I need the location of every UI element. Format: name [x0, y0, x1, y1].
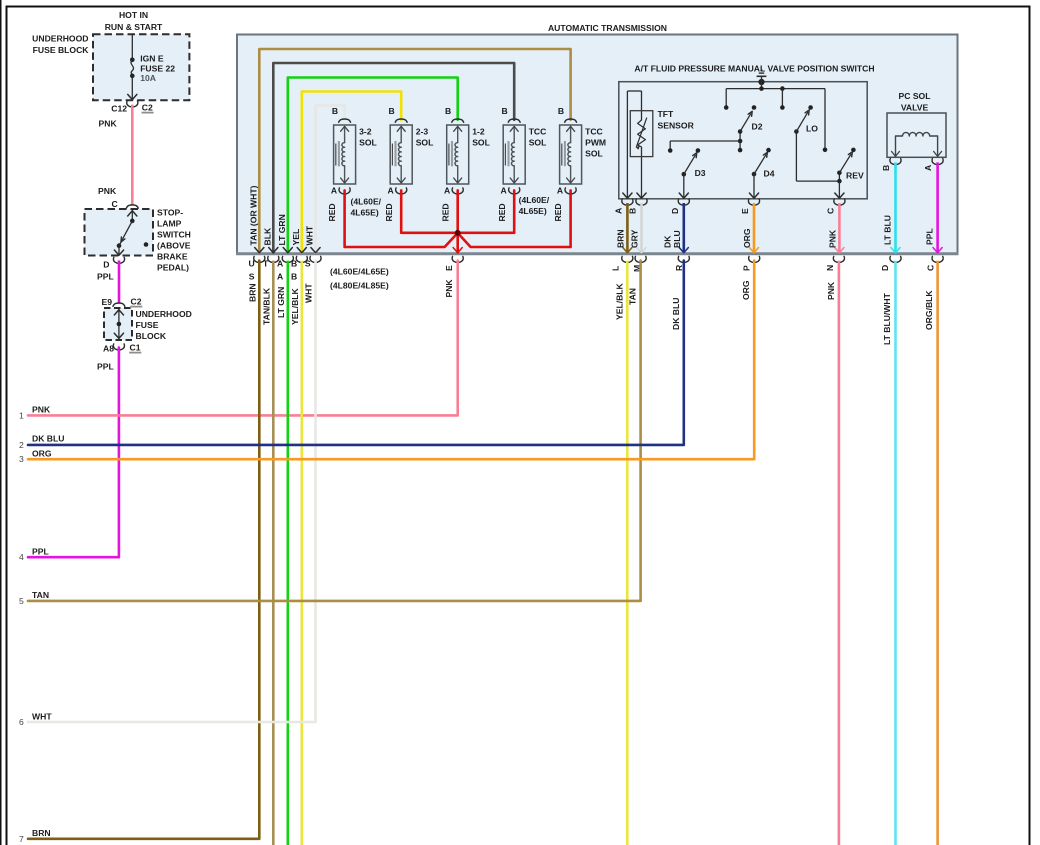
svg-text:A/T FLUID PRESSURE MANUAL VALV: A/T FLUID PRESSURE MANUAL VALVE POSITION…: [634, 64, 874, 74]
svg-text:D: D: [103, 260, 109, 270]
wire PPL pin A of PC SOL valve: [923, 159, 943, 253]
label 4L60E/4L65E at 3-2 SOL: [351, 197, 382, 218]
svg-text:PNK: PNK: [826, 281, 836, 300]
svg-text:LT BLU: LT BLU: [882, 215, 892, 245]
wire RED from TCC SOL A: [459, 190, 514, 232]
svg-text:VALVE: VALVE: [901, 103, 929, 113]
wire TAN circuit 5 (pin M to row 5): [19, 261, 641, 606]
connector pin C of stop lamp switch: [126, 205, 138, 208]
svg-text:YEL: YEL: [291, 229, 301, 246]
svg-text:ORG: ORG: [742, 228, 752, 248]
wire LT BLU/WHT pin D: [882, 261, 896, 845]
svg-text:ORG: ORG: [741, 280, 751, 300]
svg-text:B: B: [881, 165, 891, 171]
connector pin D of stop lamp switch: [103, 257, 124, 269]
wire WHT circuit 6 (to row 6): [19, 261, 316, 727]
svg-text:RED: RED: [553, 203, 563, 221]
svg-text:1-2: 1-2: [472, 127, 485, 137]
svg-text:FUSE BLOCK: FUSE BLOCK: [33, 45, 90, 55]
svg-text:UNDERHOOD: UNDERHOOD: [32, 34, 88, 44]
wire PNK from C12 to stop lamp switch: [98, 105, 132, 209]
switch REV: [835, 148, 864, 199]
wire ORG pin E of position switch: [740, 199, 760, 253]
svg-text:AUTOMATIC TRANSMISSION: AUTOMATIC TRANSMISSION: [548, 23, 667, 33]
connector pins T (TAN/BLK): [263, 256, 279, 268]
svg-text:DK BLU: DK BLU: [671, 298, 681, 330]
solenoid 1-2 SOL: [444, 106, 490, 196]
svg-text:YEL/BLK: YEL/BLK: [614, 282, 624, 320]
switch LO: [794, 105, 839, 181]
svg-text:LO: LO: [806, 124, 818, 134]
svg-text:SOL: SOL: [359, 138, 377, 148]
svg-text:RED: RED: [440, 203, 450, 221]
wire PPL from D to E9: [97, 260, 119, 303]
wire DK BLU pin D of position switch: [662, 199, 689, 253]
svg-text:A: A: [500, 186, 506, 196]
svg-text:A: A: [331, 186, 337, 196]
svg-text:IGN E: IGN E: [140, 54, 164, 64]
svg-text:BRN: BRN: [32, 828, 51, 838]
svg-text:C2: C2: [142, 103, 153, 113]
svg-text:TCC: TCC: [529, 127, 547, 137]
wire DK BLU circuit 2 (pin R to row 2): [19, 261, 684, 450]
connector pins S (WHT): [305, 256, 321, 268]
wire BLK to solenoid: [262, 63, 514, 253]
svg-text:LT GRN: LT GRN: [277, 214, 287, 245]
connector pins B/B (YEL/BLK): [291, 256, 307, 281]
svg-text:A: A: [923, 165, 933, 171]
solenoid 3-2 SOL: [331, 106, 377, 196]
underhood fuse block pass-through: [104, 308, 192, 341]
wire LT GRN: [276, 261, 288, 845]
svg-text:C: C: [112, 199, 118, 209]
svg-text:PPL: PPL: [32, 547, 49, 557]
svg-text:UNDERHOOD: UNDERHOOD: [136, 309, 192, 319]
wire PPL circuit 4 (A8 down to row 4): [19, 348, 119, 563]
svg-text:1: 1: [19, 410, 24, 420]
svg-text:B: B: [558, 106, 564, 116]
svg-text:B: B: [445, 106, 451, 116]
svg-text:B: B: [501, 106, 507, 116]
svg-text:2: 2: [19, 440, 24, 450]
svg-text:6: 6: [19, 717, 24, 727]
wire RED from 1-2 SOL A: [440, 190, 462, 252]
svg-text:BLK: BLK: [262, 227, 272, 245]
wire feed into underhood fuse block: [131, 34, 133, 60]
svg-text:2-3: 2-3: [416, 127, 429, 137]
svg-text:HOT IN: HOT IN: [119, 10, 148, 20]
svg-text:A: A: [277, 259, 283, 269]
svg-text:E9: E9: [101, 297, 112, 307]
wire YEL/BLK: [290, 261, 302, 845]
svg-text:RED: RED: [384, 203, 394, 221]
solenoid TCC SOL: [500, 106, 546, 196]
svg-text:BLOCK: BLOCK: [136, 331, 167, 341]
svg-text:D: D: [670, 208, 680, 214]
svg-text:LAMP: LAMP: [157, 219, 182, 229]
svg-text:B: B: [388, 106, 394, 116]
svg-text:N: N: [825, 265, 835, 271]
svg-text:REV: REV: [846, 171, 864, 181]
svg-text:PNK: PNK: [99, 119, 118, 129]
wire TAN/BLK: [261, 261, 273, 845]
connector C2 pin C12: [111, 101, 153, 114]
switch D4: [749, 148, 774, 198]
connector pin E: [444, 256, 463, 271]
svg-text:3: 3: [19, 454, 24, 464]
svg-text:C2: C2: [131, 297, 142, 307]
svg-text:10A: 10A: [140, 73, 156, 83]
node HOT IN RUN & START: [105, 10, 163, 32]
svg-text:ORG/BLK: ORG/BLK: [924, 290, 934, 330]
svg-text:4: 4: [19, 552, 24, 562]
svg-text:SOL: SOL: [529, 138, 547, 148]
svg-text:B: B: [291, 272, 297, 282]
svg-text:C: C: [926, 265, 936, 271]
svg-text:PNK: PNK: [444, 279, 454, 298]
svg-text:PWM: PWM: [585, 138, 606, 148]
PC SOL valve: [887, 91, 946, 157]
svg-text:C1: C1: [130, 343, 141, 353]
svg-text:B: B: [291, 259, 297, 269]
svg-text:PPL: PPL: [97, 362, 114, 372]
svg-text:TAN/BLK: TAN/BLK: [261, 287, 271, 325]
wire PNK pin N: [826, 261, 839, 845]
svg-text:WHT: WHT: [305, 225, 315, 245]
wire WHT to solenoid: [305, 106, 345, 253]
svg-text:B: B: [332, 106, 338, 116]
svg-text:A: A: [444, 186, 450, 196]
svg-text:BRN: BRN: [615, 229, 625, 248]
svg-text:T: T: [263, 259, 269, 269]
connector pin M: [632, 256, 646, 272]
wire YEL to solenoid: [291, 92, 401, 253]
svg-text:TAN: TAN: [32, 590, 49, 600]
svg-text:FUSE: FUSE: [136, 320, 159, 330]
svg-text:L: L: [611, 266, 621, 271]
connector pin R: [674, 256, 689, 271]
wire page left edge line: [0, 0, 2, 845]
wire LT GRN to solenoid: [277, 78, 458, 253]
svg-text:(4L60E/4L65E): (4L60E/4L65E): [330, 267, 389, 277]
svg-text:C: C: [825, 208, 835, 214]
svg-text:3-2: 3-2: [359, 127, 372, 137]
wire RED from TCC PWM SOL A: [458, 190, 571, 247]
svg-text:(4L80E/4L85E): (4L80E/4L85E): [330, 281, 389, 291]
TFT sensor: [623, 91, 695, 198]
svg-text:A: A: [557, 186, 563, 196]
svg-text:D3: D3: [695, 168, 706, 178]
connector pin P: [742, 256, 760, 271]
svg-text:TCC: TCC: [585, 127, 603, 137]
svg-text:PC SOL: PC SOL: [899, 91, 931, 101]
automatic transmission enclosure: [236, 23, 959, 254]
wire RED from 2-3 SOL A: [384, 190, 456, 232]
wire RED from 3-2 SOL A: [327, 190, 457, 247]
wire ORG/BLK pin C: [924, 261, 938, 845]
svg-text:PPL: PPL: [924, 228, 934, 245]
svg-text:PNK: PNK: [98, 186, 117, 196]
svg-text:DK BLU: DK BLU: [32, 434, 64, 444]
connector pin L: [611, 256, 633, 271]
svg-text:PNK: PNK: [32, 405, 51, 415]
svg-text:D4: D4: [764, 169, 775, 179]
svg-text:LT GRN: LT GRN: [276, 287, 286, 318]
connector C1 pin A8: [103, 343, 141, 354]
svg-text:S: S: [249, 272, 255, 282]
svg-text:A: A: [277, 272, 283, 282]
svg-text:RED: RED: [497, 203, 507, 221]
svg-text:PPL: PPL: [97, 272, 114, 282]
svg-text:TAN: TAN: [628, 288, 638, 305]
svg-text:STOP-: STOP-: [157, 208, 183, 218]
svg-text:RED: RED: [327, 203, 337, 221]
svg-text:5: 5: [19, 596, 24, 606]
svg-text:C12: C12: [111, 104, 127, 114]
wire ORG circuit 3 (pin P to row 3): [19, 261, 754, 465]
svg-text:A: A: [613, 208, 623, 214]
svg-text:DK: DK: [662, 235, 672, 248]
label transmission variants below connectors: [330, 267, 389, 291]
svg-text:WHT: WHT: [32, 712, 52, 722]
svg-text:7: 7: [19, 834, 24, 844]
svg-text:D: D: [880, 265, 890, 271]
svg-text:4L65E): 4L65E): [351, 208, 379, 218]
svg-text:4L65E): 4L65E): [519, 206, 547, 216]
bus of position switch: [724, 86, 827, 152]
svg-text:FUSE 22: FUSE 22: [140, 64, 175, 74]
svg-text:A8: A8: [103, 344, 114, 354]
svg-text:BRAKE: BRAKE: [157, 252, 188, 262]
junction of RED wires: [455, 230, 461, 236]
svg-text:E: E: [444, 265, 454, 271]
svg-text:SOL: SOL: [416, 138, 434, 148]
wire PNK pin C of position switch: [825, 199, 845, 253]
svg-text:(4L60E/: (4L60E/: [519, 195, 550, 205]
svg-text:S: S: [305, 259, 311, 269]
svg-text:PNK: PNK: [827, 229, 837, 248]
svg-text:D2: D2: [752, 122, 763, 132]
wire TAN (OR WHT) to solenoid: [248, 49, 570, 253]
wire LT BLU pin B of PC SOL valve: [881, 159, 901, 253]
wire BRN circuit 7 (to row 7): [19, 261, 259, 844]
wire YEL/BLK pin L: [614, 261, 627, 845]
switch D2: [738, 105, 763, 152]
wire BRN pin A of position switch: [613, 199, 633, 253]
svg-text:ORG: ORG: [32, 449, 52, 459]
svg-text:BLU: BLU: [672, 230, 682, 248]
connector pin C lower: [926, 256, 944, 271]
svg-text:SWITCH: SWITCH: [157, 230, 191, 240]
wire GRY pin B of position switch: [628, 199, 648, 253]
svg-text:E: E: [740, 208, 750, 214]
svg-text:TAN (OR WHT): TAN (OR WHT): [248, 185, 258, 245]
svg-text:RUN & START: RUN & START: [105, 22, 163, 32]
svg-text:(4L60E/: (4L60E/: [351, 197, 382, 207]
label 4L60E/4L65E at TCC SOL: [519, 195, 550, 216]
svg-text:BRN: BRN: [247, 283, 257, 302]
svg-text:TFT: TFT: [658, 109, 674, 119]
connector C2 pin E9: [101, 297, 142, 308]
svg-text:GRY: GRY: [630, 229, 640, 248]
connector pins A/A (LT GRN): [277, 256, 293, 281]
wire PNK circuit 1 (pin E to row 1): [19, 261, 458, 421]
svg-text:B: B: [628, 208, 638, 214]
svg-text:SOL: SOL: [585, 149, 603, 159]
svg-text:PEDAL): PEDAL): [157, 263, 189, 273]
svg-text:P: P: [742, 265, 752, 271]
manual valve position switch enclosure: [619, 64, 875, 199]
solenoid 2-3 SOL: [387, 106, 433, 196]
svg-text:SOL: SOL: [472, 138, 490, 148]
svg-text:U: U: [248, 259, 254, 269]
svg-text:LT BLU/WHT: LT BLU/WHT: [882, 292, 892, 345]
svg-text:WHT: WHT: [304, 283, 314, 303]
stop lamp switch: [85, 208, 191, 273]
solenoid TCC PWM SOL: [557, 106, 606, 196]
svg-text:(ABOVE: (ABOVE: [157, 241, 191, 251]
connector pin D lower: [880, 256, 901, 271]
svg-text:YEL/BLK: YEL/BLK: [290, 287, 300, 325]
svg-text:A: A: [387, 186, 393, 196]
connector pin N: [825, 256, 845, 271]
fuse IGN E FUSE 22 10A: [128, 54, 176, 100]
underhood fuse block: [32, 34, 189, 101]
switch D3: [668, 141, 740, 198]
svg-text:SENSOR: SENSOR: [658, 121, 695, 131]
connector pins U/S (BRN): [248, 256, 264, 281]
ground: [757, 70, 767, 88]
